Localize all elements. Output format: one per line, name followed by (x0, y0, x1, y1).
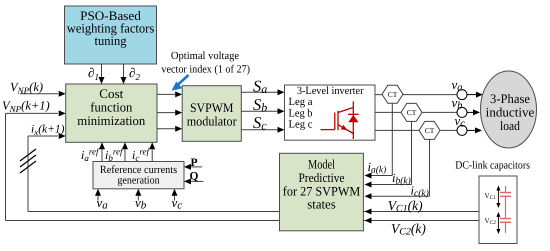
wire Cost to SVPWM 1 (157, 91, 182, 97)
3-Level inverter box (285, 85, 376, 140)
wire ic ref arrow (149, 142, 155, 161)
Reference currents generation box (93, 162, 184, 189)
wire inverter phase a (375, 94, 458, 96)
wire VC2 measure arrow (496, 212, 500, 234)
wire VNP(k+1) input (6, 110, 66, 116)
svg-text:DC-link capacitors: DC-link capacitors (455, 159, 530, 171)
node va terminal (457, 90, 467, 100)
wire ia ref arrow (99, 142, 105, 161)
wire ib ref arrow (122, 142, 128, 161)
wire Q input (184, 178, 204, 184)
svg-text:modulator: modulator (187, 114, 238, 129)
wire Sa (241, 89, 284, 95)
svg-text:CT: CT (407, 108, 417, 117)
transistor IGBT with diode icon (321, 101, 359, 139)
svg-text:generation: generation (117, 174, 160, 186)
svg-text:P: P (191, 157, 198, 169)
wire inner feedback horizontal / VC1(k) line (28, 211, 479, 213)
capacitor C2 (500, 219, 511, 223)
wire P input (184, 164, 202, 170)
wire vb to load (467, 109, 481, 115)
wire inner feedback vertical (ix(k+1) from model) (27, 136, 29, 212)
svg-text:minimization: minimization (77, 113, 145, 128)
sensor CT2 (401, 103, 422, 121)
svg-text:vector index (1 of 27): vector index (1 of 27) (161, 64, 250, 76)
sensor CT3 (419, 121, 440, 139)
wire DC bus (505, 186, 507, 233)
svg-text:load: load (500, 118, 520, 133)
capacitor C1 (500, 193, 511, 197)
svg-text:states: states (307, 197, 335, 212)
junction three-phase slash marks (20, 149, 36, 173)
wire VNP(k) input (20, 91, 66, 97)
load 3-Phase inductive (481, 71, 537, 148)
wire PSO to Cost arrow 1 (99, 64, 105, 84)
node vb terminal (457, 107, 467, 117)
wire Sb (241, 108, 284, 114)
svg-text:tuning: tuning (95, 33, 127, 48)
wire PSO to Cost arrow 2 (121, 64, 127, 84)
Model Predictive box (280, 153, 364, 231)
svg-text:Optimal voltage: Optimal voltage (171, 50, 239, 62)
svg-text:CT: CT (388, 90, 398, 99)
wire Sc (241, 127, 284, 133)
wire inverter phase c (375, 129, 458, 131)
wire Cost to SVPWM 3 (157, 126, 182, 132)
wire CT3 drop to model (365, 139, 430, 199)
wire VC2 arrow into model (365, 218, 372, 224)
wire CT2 drop to model (365, 121, 412, 187)
wire VC1 arrow into model (365, 209, 372, 215)
node vc terminal (457, 125, 467, 135)
svg-text:CT: CT (425, 126, 435, 135)
svg-text:Leg a: Leg a (289, 96, 313, 108)
wire VC1 measure arrow (496, 186, 500, 209)
transistor emitter arrowhead (341, 125, 348, 130)
sensor CT1 (382, 85, 403, 103)
wire vc to load (467, 127, 483, 133)
PSO-Based weighting factors tuning box (65, 6, 157, 64)
wire outer feedback horizontal / VC2(k) line (6, 220, 480, 222)
wire Cost to SVPWM 2 (157, 110, 182, 116)
diode D freewheel (348, 115, 358, 122)
wire va up arrow (95, 189, 101, 201)
svg-text:Leg c: Leg c (289, 119, 313, 131)
wire va to load (467, 92, 484, 98)
wire CT1 drop to model (365, 103, 393, 178)
svg-text:Leg b: Leg b (289, 107, 313, 119)
wire vb up arrow (135, 189, 141, 201)
wire blue callout arrow (172, 75, 189, 91)
Cost function minimization box (66, 84, 157, 142)
wire inverter phase b (375, 111, 458, 113)
svg-text:VNP(k+1): VNP(k+1) (2, 99, 50, 115)
wire vc up arrow (172, 189, 178, 201)
SVPWM modulator box (182, 86, 241, 142)
wire outer feedback vertical (VNP(k+1) from model) (5, 113, 7, 220)
svg-text:Q: Q (190, 171, 199, 183)
wire ix(k+1) input (28, 133, 66, 139)
DC-link capacitors box (479, 176, 517, 244)
